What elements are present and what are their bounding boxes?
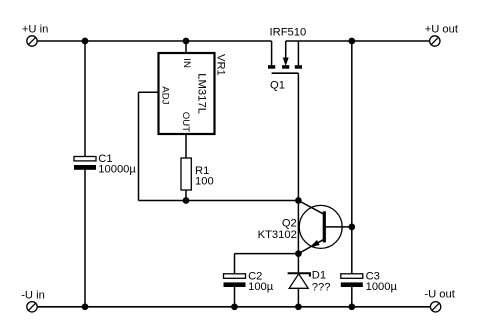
wire bottom rail xyxy=(38,306,431,308)
resistor R1 xyxy=(181,158,191,190)
svg-text:+U out: +U out xyxy=(425,23,459,35)
svg-text:LM317L: LM317L xyxy=(196,73,208,114)
svg-text:KT3102: KT3102 xyxy=(258,229,297,241)
svg-text:IRF510: IRF510 xyxy=(270,27,307,39)
node E (gate / collector junction) xyxy=(295,197,302,204)
wire top-right segment (Q1 drain to +U out) xyxy=(286,40,430,42)
terminal +U in xyxy=(27,36,37,46)
svg-text:10000µ: 10000µ xyxy=(98,163,136,175)
wire top-left segment (+U in to Q1 source) xyxy=(38,40,272,42)
node G (Q2 base / rail junction) xyxy=(348,224,355,231)
wire D1 bottom xyxy=(297,288,299,306)
wire ADJ vertical xyxy=(138,92,140,200)
transistor Q1 (IRF510 MOSFET) xyxy=(268,41,302,73)
svg-text:Q2: Q2 xyxy=(282,218,297,230)
svg-text:OUT: OUT xyxy=(180,112,191,132)
svg-text:???: ??? xyxy=(312,281,331,293)
svg-text:+U in: +U in xyxy=(22,24,48,36)
node C (+U out rail junction) xyxy=(348,38,355,45)
wire VR1 IN pin xyxy=(185,41,187,53)
wire C1 top xyxy=(84,41,86,157)
node H (C1 bottom junction) xyxy=(82,303,89,310)
svg-text:1000µ: 1000µ xyxy=(366,281,398,293)
wire VR1 ADJ horizontal xyxy=(139,91,159,93)
capacitor C3 xyxy=(341,274,363,287)
svg-text:100: 100 xyxy=(195,176,214,188)
wire Q1 gate down xyxy=(297,73,299,200)
wire right rail to C3 xyxy=(351,41,353,274)
terminal -U in xyxy=(27,302,37,312)
svg-text:Q1: Q1 xyxy=(270,80,285,92)
node B (VR1 IN junction) xyxy=(183,38,190,45)
node I (C2 bottom junction) xyxy=(231,303,238,310)
wire C3 bottom xyxy=(351,287,353,307)
node J (D1 bottom junction) xyxy=(295,303,302,310)
svg-text:D1: D1 xyxy=(312,270,326,282)
wire Q2 base lead xyxy=(326,226,352,228)
wire C2 top xyxy=(234,254,236,274)
svg-text:ADJ: ADJ xyxy=(159,86,170,104)
diode D1 (zener) xyxy=(288,273,310,288)
wire C2 horizontal xyxy=(235,253,299,255)
node F (emitter / C2 / D1 junction) xyxy=(295,250,302,257)
node A (C1 top junction) xyxy=(82,38,89,45)
wire VR1 OUT pin to R1 xyxy=(185,134,187,158)
svg-text:-U out: -U out xyxy=(424,289,455,301)
node K (C3 bottom junction) xyxy=(348,303,355,310)
terminal +U out xyxy=(430,36,440,46)
capacitor C1 xyxy=(74,157,96,170)
node D (R1 / ADJ junction) xyxy=(183,197,190,204)
svg-text:-U in: -U in xyxy=(21,289,45,301)
capacitor C2 xyxy=(224,274,246,287)
wire node row y=200 xyxy=(139,200,299,202)
wire collector column xyxy=(297,201,299,254)
regulator VR1 box xyxy=(159,53,215,134)
svg-text:VR1: VR1 xyxy=(214,54,226,76)
wire emitter to D1 xyxy=(297,254,299,273)
svg-text:IN: IN xyxy=(181,58,192,68)
terminal -U out xyxy=(430,302,440,312)
wire C2 bottom xyxy=(234,287,236,307)
wire C1 bottom xyxy=(84,170,86,307)
transistor Q2 (KT3102) xyxy=(298,201,342,254)
svg-text:100µ: 100µ xyxy=(248,281,274,293)
wire R1 bottom xyxy=(185,190,187,201)
